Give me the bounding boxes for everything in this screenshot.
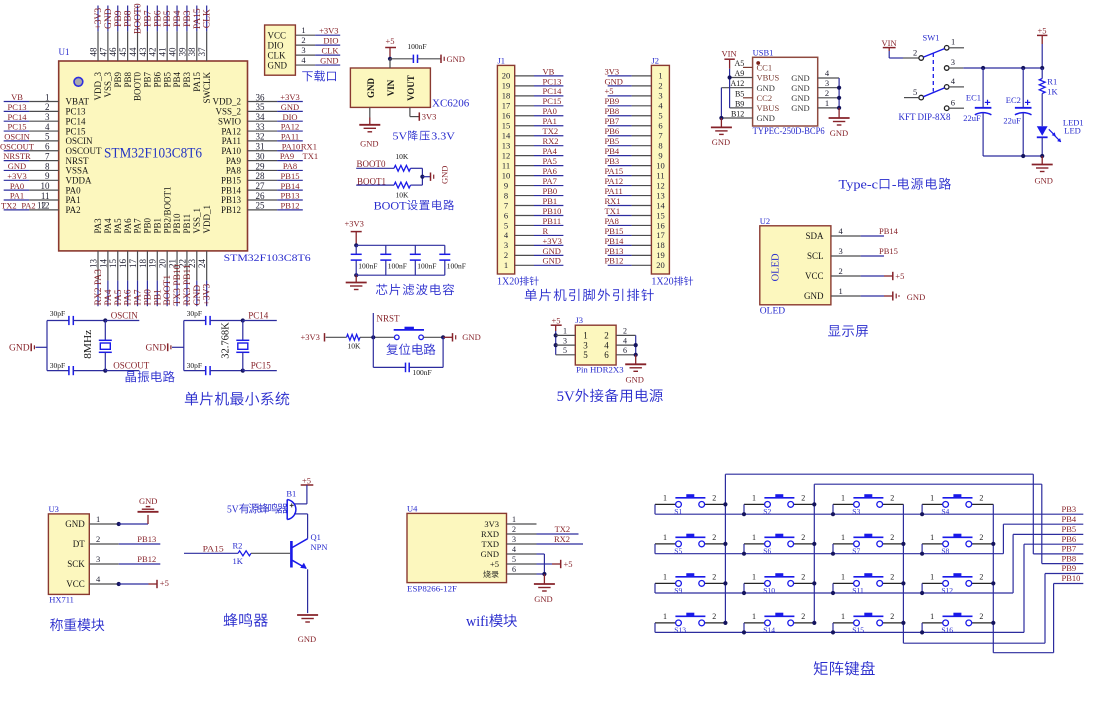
- svg-text:PB1: PB1: [153, 289, 163, 306]
- svg-text:PC14: PC14: [66, 116, 87, 126]
- svg-text:PB9: PB9: [114, 10, 124, 27]
- svg-text:16: 16: [118, 259, 128, 269]
- svg-text:B9: B9: [735, 99, 744, 108]
- svg-text:PA11: PA11: [222, 136, 241, 146]
- svg-text:10: 10: [41, 181, 51, 191]
- svg-text:4: 4: [623, 336, 627, 345]
- svg-text:ESP8266-12F: ESP8266-12F: [407, 584, 457, 594]
- svg-text:PA4: PA4: [103, 218, 113, 234]
- svg-text:A9: A9: [735, 69, 745, 78]
- svg-text:3: 3: [512, 535, 516, 544]
- svg-text:12: 12: [502, 150, 511, 160]
- svg-text:XC6206: XC6206: [432, 98, 470, 110]
- svg-text:PB11: PB11: [543, 216, 562, 226]
- svg-text:100nF: 100nF: [413, 368, 432, 377]
- svg-text:+5: +5: [302, 476, 311, 486]
- svg-text:NPN: NPN: [311, 542, 328, 552]
- svg-text:S2: S2: [763, 507, 771, 516]
- svg-text:PB11: PB11: [182, 214, 192, 234]
- svg-text:10: 10: [656, 160, 665, 170]
- svg-text:PB13: PB13: [221, 195, 242, 205]
- svg-text:PC15: PC15: [543, 96, 562, 106]
- svg-text:NRST: NRST: [66, 156, 90, 166]
- svg-text:PB14: PB14: [221, 185, 242, 195]
- svg-text:Type-c: Type-c: [839, 177, 879, 192]
- svg-text:1: 1: [663, 493, 667, 502]
- svg-text:S5: S5: [674, 547, 682, 556]
- svg-text:BOOT0: BOOT0: [134, 3, 144, 34]
- svg-text:S1: S1: [674, 507, 682, 516]
- svg-text:OSCIN: OSCIN: [111, 311, 139, 321]
- svg-text:PC14: PC14: [248, 311, 269, 321]
- svg-text:2: 2: [979, 533, 983, 542]
- svg-text:GND: GND: [791, 93, 809, 103]
- svg-text:41: 41: [158, 48, 168, 57]
- svg-text:DIO: DIO: [282, 112, 297, 122]
- svg-text:PB14: PB14: [879, 226, 899, 236]
- svg-text:2: 2: [979, 612, 983, 621]
- svg-text:30pF: 30pF: [50, 361, 65, 370]
- svg-text:GND: GND: [447, 54, 465, 64]
- svg-text:S13: S13: [674, 626, 686, 635]
- svg-text:GND: GND: [757, 83, 775, 93]
- svg-text:3: 3: [825, 78, 829, 88]
- svg-text:PB5: PB5: [163, 10, 173, 27]
- svg-text:10K: 10K: [348, 341, 362, 350]
- svg-text:U2: U2: [760, 216, 770, 226]
- svg-text:15: 15: [108, 259, 118, 269]
- svg-text:A12: A12: [731, 79, 745, 88]
- svg-text:PA11: PA11: [605, 186, 623, 196]
- svg-text:GND: GND: [712, 137, 730, 147]
- svg-text:PB7: PB7: [1062, 544, 1077, 554]
- svg-text:2: 2: [979, 493, 983, 502]
- svg-text:6: 6: [512, 565, 516, 574]
- svg-text:S4: S4: [941, 507, 949, 516]
- svg-text:3V3: 3V3: [422, 111, 437, 121]
- svg-text:100nF: 100nF: [447, 262, 466, 271]
- svg-text:VSS_3: VSS_3: [103, 72, 113, 98]
- svg-text:32: 32: [256, 132, 265, 142]
- svg-text:3.3V: 3.3V: [431, 131, 455, 143]
- svg-text:+3V3: +3V3: [94, 8, 104, 30]
- svg-text:B1: B1: [286, 488, 296, 498]
- svg-text:30pF: 30pF: [187, 361, 202, 370]
- svg-text:TX3 PB10: TX3 PB10: [173, 264, 183, 305]
- svg-text:PC14: PC14: [543, 86, 563, 96]
- svg-text:GND: GND: [193, 285, 203, 306]
- svg-text:19: 19: [148, 259, 158, 269]
- svg-text:R1: R1: [1047, 77, 1057, 87]
- svg-text:2: 2: [801, 572, 805, 581]
- svg-text:PA11: PA11: [281, 132, 299, 142]
- svg-text:14: 14: [656, 200, 665, 210]
- svg-text:Pin HDR2X3: Pin HDR2X3: [576, 365, 624, 375]
- svg-text:3: 3: [951, 57, 955, 67]
- svg-text:PB3: PB3: [605, 156, 620, 166]
- svg-text:PC15: PC15: [251, 360, 272, 370]
- svg-text:VDDA: VDDA: [66, 176, 92, 186]
- svg-text:8: 8: [45, 161, 50, 171]
- svg-text:PB13: PB13: [281, 191, 300, 201]
- svg-text:PB12: PB12: [221, 205, 241, 215]
- svg-text:PB4: PB4: [173, 10, 183, 27]
- svg-text:6: 6: [604, 350, 609, 360]
- svg-text:PB15: PB15: [281, 171, 300, 181]
- svg-text:LED: LED: [1064, 125, 1081, 135]
- svg-text:BOOT0: BOOT0: [357, 159, 386, 169]
- svg-text:2: 2: [801, 533, 805, 542]
- svg-text:2: 2: [839, 266, 843, 276]
- svg-text:10K: 10K: [396, 191, 410, 200]
- svg-text:1: 1: [825, 98, 829, 108]
- svg-text:PA10: PA10: [282, 141, 301, 151]
- svg-text:22uF: 22uF: [963, 113, 981, 123]
- svg-text:2: 2: [890, 612, 894, 621]
- svg-text:PB8: PB8: [1062, 553, 1077, 563]
- svg-text:GND: GND: [757, 113, 775, 123]
- svg-text:VOUT: VOUT: [406, 75, 416, 101]
- svg-text:8: 8: [658, 140, 662, 150]
- svg-text:B12: B12: [731, 110, 744, 119]
- svg-text:R: R: [543, 226, 549, 236]
- svg-text:S10: S10: [763, 586, 775, 595]
- svg-text:DIO: DIO: [268, 40, 284, 50]
- svg-text:1: 1: [563, 327, 567, 336]
- svg-text:45: 45: [118, 47, 128, 57]
- svg-text:6: 6: [623, 346, 627, 355]
- svg-text:40: 40: [167, 47, 177, 57]
- svg-text:SW1: SW1: [923, 33, 940, 43]
- svg-text:36: 36: [256, 92, 266, 102]
- svg-text:GND: GND: [534, 594, 552, 604]
- svg-text:37: 37: [197, 47, 207, 57]
- svg-text:23: 23: [187, 259, 197, 269]
- svg-text:VDD_3: VDD_3: [93, 72, 103, 101]
- svg-text:GND: GND: [791, 83, 809, 93]
- svg-text:20: 20: [502, 71, 511, 81]
- svg-text:22uF: 22uF: [1003, 115, 1021, 125]
- svg-text:RX2: RX2: [543, 136, 559, 146]
- svg-text:4: 4: [45, 122, 50, 132]
- svg-text:1: 1: [951, 36, 955, 46]
- svg-text:4: 4: [512, 545, 516, 554]
- svg-text:9: 9: [504, 180, 508, 190]
- svg-text:15: 15: [656, 210, 665, 220]
- svg-text:9: 9: [658, 150, 662, 160]
- svg-text:PB7: PB7: [143, 72, 153, 88]
- svg-text:1X20: 1X20: [651, 277, 673, 288]
- svg-text:GND: GND: [146, 344, 167, 354]
- svg-text:1: 1: [301, 25, 305, 35]
- svg-text:BOOT: BOOT: [374, 200, 407, 212]
- svg-text:PB7: PB7: [143, 10, 153, 27]
- svg-text:2: 2: [512, 525, 516, 534]
- svg-text:+3V3: +3V3: [345, 219, 364, 229]
- svg-text:OSCOUT: OSCOUT: [66, 146, 103, 156]
- svg-text:+5: +5: [160, 578, 169, 588]
- svg-text:3V3: 3V3: [605, 66, 620, 76]
- svg-text:14: 14: [502, 131, 511, 141]
- svg-text:2: 2: [45, 102, 50, 112]
- svg-text:PB12: PB12: [281, 200, 300, 210]
- svg-text:1: 1: [841, 572, 845, 581]
- svg-text:+3V3: +3V3: [301, 332, 320, 342]
- svg-text:PC13: PC13: [543, 76, 562, 86]
- svg-text:7: 7: [504, 200, 508, 210]
- svg-text:GND: GND: [298, 634, 316, 644]
- svg-text:2: 2: [979, 572, 983, 581]
- svg-text:STM32F103C8T6: STM32F103C8T6: [224, 253, 312, 263]
- svg-text:TX1: TX1: [605, 206, 621, 216]
- svg-text:1: 1: [583, 331, 588, 341]
- svg-text:GND: GND: [366, 78, 376, 99]
- svg-text:OLED: OLED: [771, 253, 782, 281]
- svg-text:VCC: VCC: [268, 30, 287, 40]
- svg-text:39: 39: [177, 47, 187, 57]
- svg-text:DT: DT: [73, 539, 85, 549]
- svg-text:VIN: VIN: [882, 38, 897, 48]
- svg-text:PB9: PB9: [1062, 563, 1077, 573]
- svg-text:10K: 10K: [395, 152, 409, 161]
- svg-text:+5: +5: [490, 559, 499, 569]
- svg-text:5: 5: [583, 350, 588, 360]
- svg-text:R2: R2: [233, 541, 243, 551]
- svg-text:2: 2: [623, 327, 627, 336]
- svg-text:2: 2: [301, 35, 305, 45]
- svg-text:PB0: PB0: [543, 186, 558, 196]
- svg-text:PA6: PA6: [543, 166, 557, 176]
- svg-text:PB9: PB9: [605, 96, 620, 106]
- svg-text:38: 38: [187, 47, 197, 57]
- svg-text:100nF: 100nF: [407, 42, 426, 51]
- svg-text:18: 18: [656, 240, 665, 250]
- svg-text:PA10: PA10: [221, 146, 241, 156]
- svg-text:3: 3: [301, 45, 305, 55]
- svg-text:1: 1: [841, 612, 845, 621]
- svg-text:GND: GND: [139, 496, 157, 506]
- svg-text:2: 2: [712, 533, 716, 542]
- svg-text:PB5: PB5: [162, 72, 172, 88]
- svg-text:PB3: PB3: [183, 10, 193, 27]
- svg-text:SCK: SCK: [67, 559, 85, 569]
- svg-text:PA9: PA9: [280, 151, 294, 161]
- svg-text:1: 1: [658, 71, 662, 81]
- svg-text:S7: S7: [852, 547, 860, 556]
- svg-text:6: 6: [951, 97, 955, 107]
- svg-text:VSS_1: VSS_1: [192, 208, 202, 234]
- svg-text:PA9: PA9: [226, 156, 242, 166]
- svg-text:PB6: PB6: [152, 72, 162, 88]
- svg-text:16: 16: [502, 111, 511, 121]
- svg-text:2: 2: [890, 493, 894, 502]
- svg-text:PA1: PA1: [66, 195, 81, 205]
- svg-text:VIN: VIN: [722, 49, 737, 59]
- svg-text:OSCOUT: OSCOUT: [0, 141, 35, 151]
- svg-text:GND: GND: [830, 128, 848, 138]
- svg-text:TX1: TX1: [303, 151, 319, 161]
- svg-text:30: 30: [256, 151, 266, 161]
- svg-text:PB8: PB8: [123, 72, 133, 88]
- svg-text:3: 3: [504, 240, 508, 250]
- svg-text:9: 9: [45, 171, 50, 181]
- svg-text:10: 10: [502, 170, 511, 180]
- svg-text:1: 1: [752, 612, 756, 621]
- svg-text:1: 1: [752, 533, 756, 542]
- svg-text:1: 1: [663, 612, 667, 621]
- svg-text:RXD: RXD: [481, 529, 499, 539]
- svg-text:PB15: PB15: [879, 246, 898, 256]
- svg-text:4: 4: [604, 340, 609, 350]
- svg-text:CC2: CC2: [757, 93, 773, 103]
- svg-text:16: 16: [656, 220, 665, 230]
- svg-text:GND: GND: [543, 256, 561, 266]
- svg-text:GND: GND: [605, 76, 623, 86]
- svg-text:17: 17: [656, 230, 665, 240]
- svg-text:5: 5: [658, 111, 662, 121]
- svg-text:2: 2: [890, 533, 894, 542]
- svg-text:1: 1: [841, 493, 845, 502]
- svg-text:VSSA: VSSA: [66, 166, 90, 176]
- svg-text:2: 2: [658, 81, 662, 91]
- svg-text:S12: S12: [941, 586, 953, 595]
- svg-text:5: 5: [512, 555, 516, 564]
- svg-text:PA12: PA12: [281, 122, 300, 132]
- svg-text:+3V3: +3V3: [280, 92, 299, 102]
- svg-text:PB10: PB10: [172, 213, 182, 234]
- svg-text:1: 1: [96, 514, 100, 524]
- svg-text:6: 6: [658, 121, 662, 131]
- svg-text:BOOT0: BOOT0: [133, 72, 143, 101]
- svg-text:GND: GND: [9, 344, 30, 354]
- svg-text:2: 2: [504, 250, 508, 260]
- svg-text:PA15: PA15: [192, 72, 202, 92]
- svg-text:34: 34: [256, 112, 266, 122]
- svg-text:PB4: PB4: [172, 72, 182, 88]
- svg-text:6: 6: [504, 210, 508, 220]
- svg-text:SDA: SDA: [805, 231, 824, 241]
- svg-text:PB3: PB3: [182, 72, 192, 88]
- svg-text:S11: S11: [852, 586, 864, 595]
- svg-text:11: 11: [656, 170, 664, 180]
- svg-text:TX2: TX2: [543, 126, 559, 136]
- svg-text:RX1: RX1: [605, 196, 621, 206]
- svg-text:U1: U1: [59, 47, 70, 57]
- svg-text:PC15: PC15: [8, 122, 27, 132]
- svg-text:VBUS: VBUS: [757, 103, 780, 113]
- svg-text:1: 1: [504, 260, 508, 270]
- svg-text:PA12: PA12: [605, 176, 624, 186]
- svg-text:GND: GND: [360, 138, 378, 148]
- svg-text:S14: S14: [763, 626, 775, 635]
- svg-text:PA7: PA7: [133, 218, 143, 234]
- svg-text:1: 1: [663, 533, 667, 542]
- svg-text:PA7: PA7: [543, 176, 557, 186]
- svg-text:GND: GND: [481, 549, 499, 559]
- svg-text:100nF: 100nF: [358, 262, 377, 271]
- svg-text:PA15: PA15: [193, 8, 203, 29]
- svg-text:PA5: PA5: [543, 156, 557, 166]
- svg-text:PB12: PB12: [605, 256, 624, 266]
- svg-text:PA5: PA5: [114, 289, 124, 305]
- svg-text:PA1: PA1: [10, 191, 24, 201]
- svg-text:+3V3: +3V3: [543, 236, 562, 246]
- svg-text:PB6: PB6: [153, 10, 163, 27]
- svg-text:HX711: HX711: [49, 594, 74, 604]
- svg-text:1: 1: [930, 572, 934, 581]
- svg-text:+3V3: +3V3: [7, 171, 26, 181]
- svg-text:VBAT: VBAT: [66, 97, 90, 107]
- svg-text:1: 1: [930, 493, 934, 502]
- svg-text:7: 7: [45, 151, 50, 161]
- svg-text:PB13: PB13: [137, 534, 156, 544]
- svg-text:PC14: PC14: [8, 112, 28, 122]
- svg-text:OSCIN: OSCIN: [66, 136, 94, 146]
- svg-text:VB: VB: [11, 92, 23, 102]
- svg-text:PA2: PA2: [66, 205, 81, 215]
- svg-text:OLED: OLED: [760, 307, 785, 317]
- svg-text:PB1: PB1: [152, 218, 162, 234]
- svg-text:PB4: PB4: [605, 146, 620, 156]
- svg-text:KFT DIP-8X8: KFT DIP-8X8: [899, 112, 951, 122]
- svg-text:3: 3: [583, 340, 588, 350]
- svg-text:12: 12: [656, 180, 665, 190]
- svg-text:28: 28: [256, 171, 266, 181]
- svg-text:2: 2: [604, 331, 609, 341]
- svg-text:PB2/BOOT1: PB2/BOOT1: [162, 186, 172, 233]
- svg-text:PA3: PA3: [93, 218, 103, 234]
- svg-text:3: 3: [563, 336, 567, 345]
- svg-text:EC2: EC2: [1006, 95, 1021, 105]
- svg-text:STM32F103C8T6: STM32F103C8T6: [104, 145, 202, 161]
- svg-text:11: 11: [41, 191, 50, 201]
- svg-text:5: 5: [504, 220, 508, 230]
- svg-text:GND: GND: [625, 375, 643, 385]
- svg-text:2: 2: [801, 612, 805, 621]
- svg-text:5V: 5V: [227, 504, 239, 516]
- svg-text:TX2: TX2: [555, 524, 571, 534]
- svg-text:PC15: PC15: [66, 126, 87, 136]
- svg-text:1: 1: [512, 515, 516, 524]
- svg-text:U4: U4: [407, 504, 418, 514]
- svg-text:J1: J1: [498, 56, 506, 66]
- svg-text:USB1: USB1: [753, 48, 774, 58]
- svg-text:26: 26: [256, 191, 266, 201]
- svg-text:CLK: CLK: [322, 46, 340, 56]
- svg-text:20: 20: [656, 260, 665, 270]
- svg-text:5V: 5V: [393, 131, 408, 143]
- svg-text:2: 2: [712, 572, 716, 581]
- svg-text:TX2: TX2: [1, 200, 17, 210]
- svg-text:11: 11: [502, 160, 510, 170]
- svg-text:PA12: PA12: [221, 126, 241, 136]
- svg-text:S9: S9: [674, 586, 682, 595]
- svg-text:OSCOUT: OSCOUT: [113, 360, 150, 370]
- svg-text:SWCLK: SWCLK: [202, 71, 212, 103]
- svg-text:PA8: PA8: [283, 161, 297, 171]
- svg-text:2: 2: [712, 612, 716, 621]
- svg-text:A5: A5: [735, 59, 745, 68]
- svg-text:32.768K: 32.768K: [221, 322, 232, 359]
- svg-text:29: 29: [256, 161, 266, 171]
- svg-text:42: 42: [148, 48, 158, 57]
- svg-text:PB5: PB5: [605, 136, 620, 146]
- svg-text:RX2 PA3: RX2 PA3: [94, 269, 104, 306]
- svg-text:GND: GND: [8, 161, 26, 171]
- svg-text:RX2: RX2: [554, 534, 570, 544]
- svg-text:19: 19: [656, 250, 665, 260]
- svg-text:VSS_2: VSS_2: [215, 107, 241, 117]
